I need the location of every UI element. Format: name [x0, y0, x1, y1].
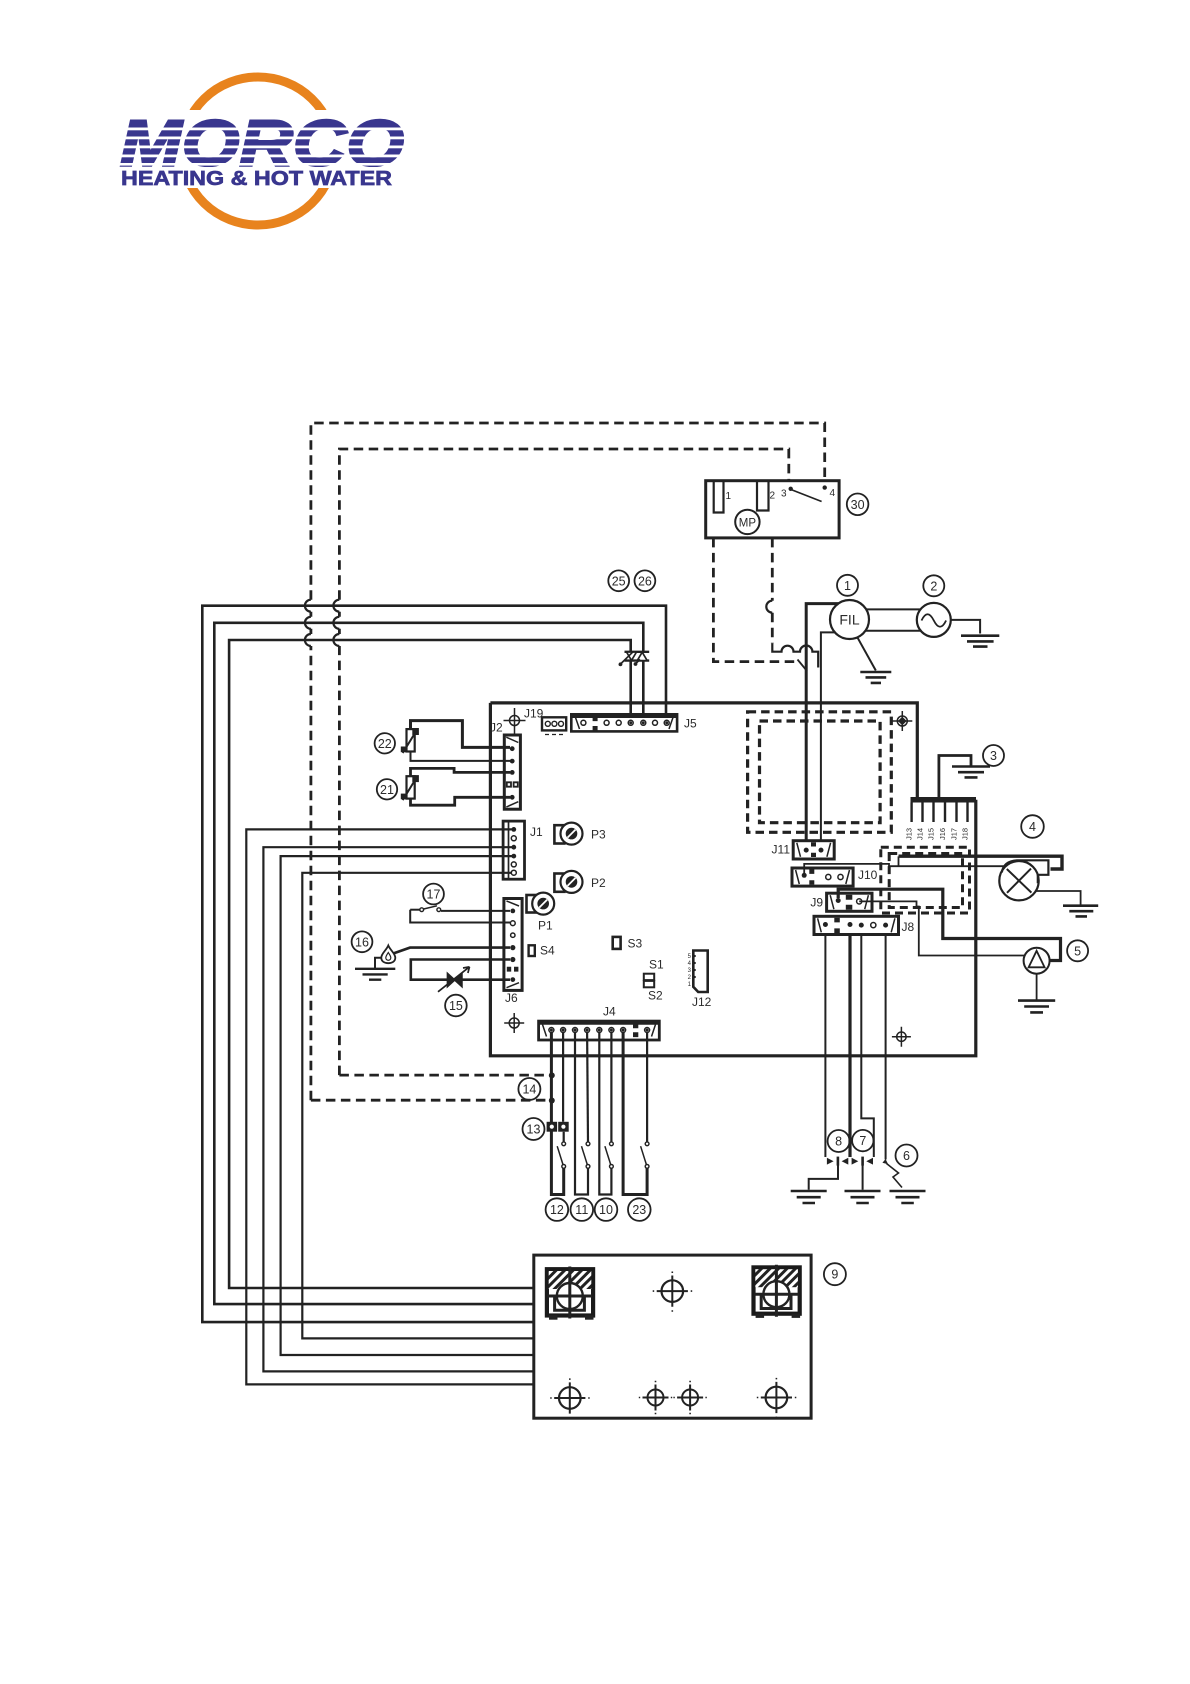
- callout 3: [983, 745, 1004, 766]
- wire 22 bottom to J2 pin2: [411, 752, 511, 761]
- pin 1 slot: [714, 481, 724, 513]
- svg-text:J9: J9: [810, 896, 823, 910]
- wire switch10 loop: [599, 1032, 611, 1195]
- connector J8: [814, 916, 899, 934]
- ground (item 6): [890, 1191, 926, 1203]
- crosshair bottom mid-right: [673, 1381, 706, 1414]
- svg-text:P2: P2: [591, 876, 606, 890]
- wire switch12 loop: [551, 1032, 563, 1195]
- flame electrode (item 16): [355, 946, 510, 980]
- wire dashed MF pin2 down: [771, 538, 774, 643]
- connector J1: [503, 821, 524, 879]
- svg-text:11: 11: [575, 1203, 588, 1217]
- pin 3: [789, 487, 793, 491]
- svg-text:1: 1: [844, 579, 851, 593]
- wire J1 pin6 from left: [302, 873, 534, 1339]
- wire hop bumps on dashed verticals: [305, 600, 311, 646]
- wire fan supply thick: [899, 856, 1063, 869]
- connector J11: [793, 841, 834, 859]
- svg-text:J14: J14: [916, 828, 925, 840]
- svg-text:J8: J8: [902, 920, 915, 934]
- crosshair bottom left: [550, 1378, 590, 1418]
- jumper S3: [613, 937, 621, 949]
- ground (item 7): [845, 1191, 881, 1203]
- callout 15: [445, 995, 467, 1017]
- connector J6: [504, 899, 522, 991]
- connector J5: [571, 714, 677, 731]
- wire J8 pin4 down stepped: [861, 935, 874, 1158]
- connector J4: [539, 1021, 660, 1040]
- svg-text:3: 3: [781, 489, 787, 500]
- wire FIL to J11 pin1: [806, 604, 838, 841]
- wire 21 top to J2 pin3: [411, 768, 511, 776]
- callout 4: [1021, 815, 1044, 838]
- svg-text:J5: J5: [684, 717, 697, 731]
- svg-text:HEATING & HOT WATER: HEATING & HOT WATER: [121, 167, 392, 190]
- spark gap (item 6): [887, 1164, 903, 1188]
- svg-text:J1: J1: [530, 825, 543, 839]
- ground (mains): [961, 636, 999, 647]
- wire pump to earth: [1036, 974, 1038, 1000]
- ignition coil right: [754, 1265, 801, 1318]
- wire FIL to J11 pin2: [821, 632, 835, 841]
- wire switch23 loop: [623, 1032, 647, 1195]
- svg-text:P1: P1: [538, 919, 553, 933]
- gas valve (item 15): [411, 960, 510, 992]
- svg-text:9: 9: [831, 1268, 838, 1282]
- mounting hole top-left: [504, 708, 526, 734]
- ignition coil left: [547, 1267, 594, 1320]
- interface dashed box outer: [881, 847, 970, 913]
- svg-text:10: 10: [599, 1203, 613, 1217]
- svg-text:J4: J4: [603, 1005, 616, 1019]
- jumper S2: [644, 981, 654, 987]
- ground (FIL): [860, 672, 891, 683]
- switch (item 17): [410, 906, 510, 923]
- svg-text:16: 16: [355, 935, 369, 949]
- MORCO logo: [108, 77, 418, 225]
- pump (item 5): [1024, 948, 1050, 974]
- callout 16: [352, 931, 373, 952]
- connector J10: [792, 868, 853, 886]
- svg-text:4: 4: [1029, 820, 1036, 834]
- wire FIL-mains upper: [866, 608, 920, 610]
- svg-text:J13: J13: [905, 828, 914, 840]
- svg-text:MP: MP: [739, 518, 757, 530]
- svg-text:2: 2: [770, 491, 776, 502]
- callout 13: [523, 1118, 545, 1140]
- svg-text:21: 21: [380, 783, 394, 797]
- svg-text:7: 7: [859, 1134, 866, 1148]
- svg-text:6: 6: [903, 1149, 910, 1163]
- svg-text:13: 13: [527, 1123, 541, 1137]
- svg-text:14: 14: [522, 1083, 536, 1097]
- svg-text:26: 26: [638, 574, 652, 588]
- logo stripes: [108, 128, 418, 166]
- svg-text:FIL: FIL: [839, 612, 859, 628]
- wire fan to earth: [1037, 891, 1081, 905]
- callout 23: [628, 1198, 651, 1221]
- link connector item 13: [547, 1122, 569, 1132]
- display dashed box outer: [748, 712, 892, 833]
- svg-text:22: 22: [378, 737, 392, 751]
- wire J1 pin3 from left: [263, 847, 533, 1371]
- svg-text:J19: J19: [524, 707, 544, 721]
- svg-text:J11: J11: [772, 843, 791, 857]
- jumper S4: [529, 945, 535, 956]
- svg-text:J15: J15: [927, 828, 936, 840]
- mains source (item 2): [917, 603, 951, 637]
- callout 30: [847, 494, 869, 516]
- callout 12: [546, 1198, 569, 1221]
- svg-text:4: 4: [830, 488, 836, 499]
- callout 14: [518, 1078, 540, 1100]
- jumper S1: [644, 974, 654, 980]
- svg-text:25: 25: [612, 574, 626, 588]
- wire J8 pin6 down to spark: [885, 935, 887, 1160]
- crosshair bottom right: [757, 1378, 797, 1418]
- svg-text:23: 23: [632, 1203, 646, 1217]
- wire spade8 to earth: [809, 1166, 838, 1190]
- wire L1: left bundle to J5 pin7: [202, 606, 666, 1322]
- potentiometer P2: [554, 871, 582, 893]
- spade terminals item 8: [827, 1157, 873, 1166]
- svg-text:J18: J18: [961, 828, 970, 840]
- wire 22 top to J2 pin1: [411, 721, 511, 748]
- callout 21: [377, 779, 397, 799]
- wire dashed bottom run to node 14 upper: [339, 1074, 548, 1077]
- thermistor 22: [401, 721, 510, 761]
- callout 2: [923, 575, 944, 596]
- interface dashed box inner: [889, 854, 962, 908]
- ground (item 3 earth): [952, 767, 990, 778]
- spade terminals item 7: [852, 1158, 873, 1165]
- wire tick at dashed end: [798, 660, 808, 672]
- svg-text:J16: J16: [938, 828, 947, 840]
- wire L3: left bundle to triac left: [229, 640, 631, 1288]
- wire J9 to pump thin: [859, 901, 1024, 955]
- svg-text:S1: S1: [649, 958, 664, 972]
- svg-text:17: 17: [427, 888, 441, 902]
- wire dashed inner loop left/top: [339, 449, 788, 1075]
- callout 6: [896, 1145, 918, 1167]
- wire 21 bottom to J2 pin4: [411, 797, 511, 805]
- wire hop path joining FIL drop: [772, 643, 818, 667]
- connector J13-J18: [911, 800, 977, 822]
- callout 5: [1067, 940, 1088, 961]
- connector MF box (item 30): [706, 481, 839, 538]
- display dashed box inner: [760, 721, 881, 823]
- ground (item 8): [791, 1191, 827, 1203]
- svg-text:12: 12: [550, 1203, 564, 1217]
- callout 10: [595, 1198, 618, 1221]
- svg-text:J12: J12: [692, 995, 712, 1009]
- potentiometer P3: [554, 823, 582, 845]
- wire FIL to earth diagonal: [857, 637, 876, 671]
- crosshair top center: [653, 1272, 693, 1312]
- ground (pump): [1018, 1001, 1055, 1013]
- switch 10 contacts: [610, 1142, 614, 1146]
- mounting hole top-right: [892, 711, 912, 731]
- node junction dots on wire 12a: [549, 1072, 555, 1078]
- callout 17: [423, 884, 444, 905]
- svg-text:J10: J10: [858, 868, 878, 882]
- potentiometer P1: [527, 893, 555, 915]
- svg-text:S2: S2: [648, 989, 663, 1003]
- svg-text:S4: S4: [540, 944, 555, 958]
- svg-text:1: 1: [726, 491, 732, 502]
- switch 11 contacts: [586, 1142, 590, 1146]
- logo white band behind wordmark: [108, 110, 418, 172]
- connector J12: [693, 951, 707, 993]
- callout 7: [852, 1130, 873, 1151]
- wire J9 pin1 to pump thick: [838, 889, 1060, 960]
- svg-text:J6: J6: [505, 991, 518, 1005]
- svg-text:3: 3: [990, 749, 997, 763]
- wire J8 pin1 down: [824, 935, 826, 1158]
- connector J19: [542, 717, 566, 734]
- mounting hole bottom-right: [892, 1027, 911, 1047]
- fan volute: [1002, 860, 1049, 883]
- wire FIL-mains lower: [866, 630, 921, 632]
- svg-text:J2: J2: [490, 721, 503, 735]
- ground (fan): [1063, 906, 1098, 917]
- wire switch11 loop: [575, 1032, 588, 1195]
- switch blade 3-4: [792, 490, 821, 502]
- svg-text:5: 5: [1074, 944, 1081, 958]
- wire J8 pin3 down thick: [848, 935, 851, 1158]
- callout 9: [824, 1263, 846, 1285]
- switch 12 contacts: [562, 1142, 566, 1146]
- callout 8: [828, 1130, 850, 1152]
- wire J1 pin1 from left: [246, 829, 534, 1384]
- logo orange ring: [182, 77, 334, 225]
- svg-text:2: 2: [930, 579, 937, 593]
- wire dashed outer loop (room stat) left/top: [311, 423, 825, 1100]
- wire J10 pin1 to fan: [804, 856, 1004, 873]
- svg-text:30: 30: [851, 498, 865, 512]
- switch 23 contacts: [645, 1142, 649, 1146]
- motor MP: [735, 510, 759, 534]
- callout 22: [375, 733, 395, 753]
- svg-text:S3: S3: [628, 937, 643, 951]
- thermistor 21: [401, 768, 510, 805]
- pin 4: [823, 485, 827, 489]
- wire spade7 to earth: [862, 1166, 864, 1190]
- wire J13-18 to earth: [939, 756, 971, 800]
- pin 2 slot: [757, 481, 769, 511]
- svg-text:P3: P3: [591, 828, 606, 842]
- filter FIL (item 1): [830, 600, 869, 639]
- wire mains to earth: [951, 620, 980, 634]
- callout 25: [608, 570, 629, 591]
- callout 11: [571, 1198, 594, 1221]
- mounting hole bottom-left: [504, 1013, 524, 1033]
- wire dashed bottom run to node 14 lower: [311, 1099, 548, 1102]
- svg-text:8: 8: [835, 1135, 842, 1149]
- fan motor (item 4): [999, 861, 1038, 900]
- svg-text:J17: J17: [950, 828, 959, 840]
- connector J9: [827, 893, 872, 911]
- callout 26: [635, 570, 656, 591]
- callout 1: [837, 575, 858, 596]
- gas valve assembly box (item 9): [534, 1255, 811, 1418]
- triac (items 25/26): [625, 652, 650, 661]
- wire dashed MF pin1 down: [713, 538, 796, 662]
- wire triac to J5 pins: [631, 661, 644, 717]
- PCB board outline: [490, 703, 975, 1056]
- wire L2: left bundle to triac right: [214, 623, 643, 1304]
- wire J1 pin4 from left: [281, 856, 534, 1355]
- svg-text:15: 15: [449, 999, 463, 1013]
- connector J2: [504, 735, 520, 809]
- crosshair bottom mid-left: [639, 1381, 672, 1414]
